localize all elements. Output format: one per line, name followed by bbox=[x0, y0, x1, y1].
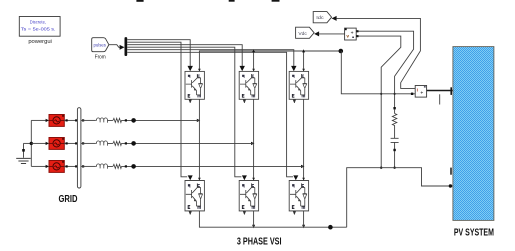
gate arrowhead top IGBT1 bbox=[188, 66, 193, 71]
end tick at PV input bbox=[450, 87, 452, 95]
junction dot RC on DC- rail bbox=[393, 167, 395, 169]
gate wire 6 (bottom IGBT 3) bbox=[127, 52, 293, 177]
wire source B to measure bar bbox=[64, 142, 77, 144]
wire RC to junction bbox=[108, 165, 304, 167]
E stub arrow bottom IGBT2 bbox=[243, 211, 246, 215]
svg-text:3 PHASE VSI: 3 PHASE VSI bbox=[237, 237, 282, 248]
DC+ bus bbox=[199, 51, 340, 71]
From tag pulses bbox=[92, 38, 109, 52]
arrow into source A bbox=[46, 119, 49, 122]
port squares left of bar bbox=[66, 119, 78, 167]
svg-text:Vdc: Vdc bbox=[298, 31, 307, 37]
svg-text:PV SYSTEM: PV SYSTEM bbox=[454, 227, 494, 238]
phase wire leg2 bbox=[253, 99, 255, 180]
grid trunk wire bbox=[30, 120, 32, 166]
IGBT U3 (top leg3) bbox=[289, 71, 308, 99]
ground wire to trunk bbox=[24, 142, 32, 144]
VSI bottom bus bbox=[199, 211, 346, 227]
gate wire 3 (top IGBT 2) bbox=[127, 45, 242, 67]
cropped caption descender mark 2 bbox=[229, 0, 235, 2]
branch B wire to inductor bbox=[81, 142, 96, 144]
arrow into Idc tag bbox=[332, 16, 337, 21]
wire RB to junction bbox=[108, 142, 254, 144]
RC snubber branch R bbox=[392, 107, 396, 138]
svg-text:GRID: GRID bbox=[59, 194, 78, 205]
C port tick top IGBT3 bbox=[302, 69, 305, 72]
junction dot at PV lower input bbox=[449, 184, 452, 187]
gate arrowhead top IGBT2 bbox=[240, 66, 245, 71]
gate arrowhead top IGBT3 bbox=[291, 66, 296, 71]
wire trunk to source C bbox=[31, 165, 46, 167]
arrow into source C bbox=[46, 165, 49, 168]
cropped caption descender mark 3 bbox=[272, 0, 280, 2]
hanging stub below I-meas wire bbox=[439, 94, 441, 104]
trunk junction dot bbox=[30, 142, 33, 145]
I-meas output wire to PV bbox=[427, 90, 453, 92]
junction dot branch C bbox=[131, 164, 136, 169]
PV lower port tick bbox=[450, 168, 452, 175]
IGBT U6 (bottom leg3) bbox=[289, 181, 308, 211]
junction dot V- crossing bbox=[380, 93, 382, 95]
inductor LA bbox=[96, 118, 108, 123]
DC+ bus junction dot bbox=[339, 49, 344, 54]
junction dot branch A bbox=[131, 118, 136, 123]
junction arrow bus leg3 bbox=[302, 49, 305, 52]
IGBT U2 (top leg2) bbox=[239, 71, 258, 99]
junction dot branch B bbox=[131, 141, 136, 146]
wire source C to measure bar bbox=[64, 165, 77, 167]
demux bar bbox=[125, 37, 128, 56]
svg-text:+: + bbox=[351, 30, 354, 36]
E stub arrow bottom IGBT1 bbox=[189, 211, 192, 215]
phase wire leg1 bbox=[198, 99, 200, 180]
inductor LB bbox=[96, 141, 108, 146]
ground symbol bbox=[16, 143, 31, 163]
AC source A (red) bbox=[49, 115, 64, 127]
port square branch C bbox=[125, 165, 127, 167]
RC snubber branch C bbox=[391, 138, 399, 167]
svg-text:+: + bbox=[420, 91, 423, 97]
gate wire 5 (top IGBT 3) bbox=[127, 50, 294, 67]
Idc signal wire (Z route) bbox=[336, 18, 420, 88]
svg-text:Ts = 5e-005 s.: Ts = 5e-005 s. bbox=[21, 27, 56, 33]
bottom bus junction dot bbox=[328, 225, 333, 230]
C port tick top IGBT1 bbox=[198, 69, 201, 72]
inductor LC bbox=[96, 164, 108, 169]
svg-text:From: From bbox=[95, 55, 106, 61]
AC source C (red) bbox=[49, 161, 64, 173]
junction arrow bottom bus leg3 bbox=[302, 225, 305, 229]
V+ wire (Z route to RC branch) bbox=[359, 31, 414, 108]
powergui block bbox=[19, 17, 60, 37]
wire trunk to source A bbox=[31, 119, 46, 121]
port square branch A bbox=[125, 119, 127, 121]
gate wire 4 (bottom IGBT 2) bbox=[127, 47, 241, 177]
wire source A to measure bar bbox=[64, 119, 77, 121]
IGBT U5 (bottom leg2) bbox=[239, 181, 258, 211]
branch C wire to inductor bbox=[81, 165, 96, 167]
wire bus to top IGBT2 C bbox=[253, 51, 255, 71]
C port tick bottom IGBT3 bbox=[302, 178, 305, 181]
E stub arrow bottom IGBT3 bbox=[293, 211, 296, 215]
E stub arrow top IGBT2 bbox=[243, 99, 246, 103]
DC- rail wire bbox=[347, 168, 453, 228]
wire bus to top IGBT3 C bbox=[303, 51, 305, 71]
svg-text:Idc: Idc bbox=[316, 15, 324, 21]
svg-text:pulses: pulses bbox=[93, 42, 106, 47]
wire RA to junction bbox=[108, 119, 200, 121]
branch C junction arrow bbox=[301, 165, 304, 168]
C port tick bottom IGBT1 bbox=[198, 178, 201, 181]
current measurement block bbox=[415, 86, 426, 98]
cropped caption descender mark 1 bbox=[136, 0, 143, 2]
arrow into source B bbox=[46, 142, 49, 145]
junction arrow bus leg2 bbox=[252, 49, 255, 52]
DC+ wire to current measure bbox=[341, 51, 415, 94]
Idc goto tag bbox=[313, 12, 331, 23]
resistor RC bbox=[113, 164, 122, 168]
gate wire 1 (top IGBT 1) bbox=[127, 40, 190, 67]
svg-text:v: v bbox=[346, 34, 349, 39]
port square before I-meas bbox=[411, 93, 413, 95]
three-phase measure bar bbox=[77, 108, 81, 188]
branch B junction arrow bbox=[251, 142, 254, 145]
svg-text:Discrete,: Discrete, bbox=[30, 20, 46, 26]
C port tick bottom IGBT2 bbox=[252, 178, 255, 181]
gate arrowhead bottom IGBT3 bbox=[293, 175, 298, 180]
svg-text:i: i bbox=[417, 87, 418, 93]
wire trunk to source B bbox=[31, 142, 46, 144]
PV lower port dot bbox=[454, 177, 456, 179]
branch A wire to inductor bbox=[81, 119, 96, 121]
V-meas right port squares bbox=[356, 30, 358, 32]
resistor RA bbox=[113, 118, 122, 122]
port squares right of bar bbox=[82, 119, 84, 167]
gate arrowhead bottom IGBT1 bbox=[188, 175, 193, 180]
E stub arrow top IGBT3 bbox=[293, 99, 296, 103]
E stub arrow top IGBT1 bbox=[189, 99, 192, 103]
gate arrowhead bottom IGBT2 bbox=[242, 175, 247, 180]
Vdc signal wire bbox=[319, 33, 345, 35]
arrowhead into demux bbox=[120, 45, 125, 50]
phase wire leg3 bbox=[303, 99, 305, 180]
voltage measurement block bbox=[345, 28, 357, 40]
V- wire (Z route to DC- rail) bbox=[359, 36, 401, 168]
PV SYSTEM block bbox=[453, 47, 494, 221]
port square branch B bbox=[125, 142, 127, 144]
branch A junction arrow bbox=[197, 119, 200, 122]
gate wire 2 (bottom IGBT 1) bbox=[127, 42, 187, 177]
IGBT U4 (bottom leg1) bbox=[185, 181, 204, 211]
arrow into Vdc tag bbox=[314, 31, 319, 36]
IGBT U1 (top leg1) bbox=[185, 71, 204, 99]
svg-text:powergui: powergui bbox=[28, 39, 52, 45]
resistor RB bbox=[113, 141, 122, 145]
junction arrow bottom bus leg2 bbox=[252, 225, 255, 229]
C port tick top IGBT2 bbox=[252, 69, 255, 72]
AC source B (red) bbox=[49, 138, 64, 150]
junction dot V+ crossing bbox=[394, 93, 396, 95]
wire From to Demux bbox=[109, 45, 121, 48]
Vdc goto tag bbox=[296, 27, 315, 38]
junction dot V- on DC- rail bbox=[380, 167, 382, 169]
PV port mark bbox=[454, 90, 456, 92]
